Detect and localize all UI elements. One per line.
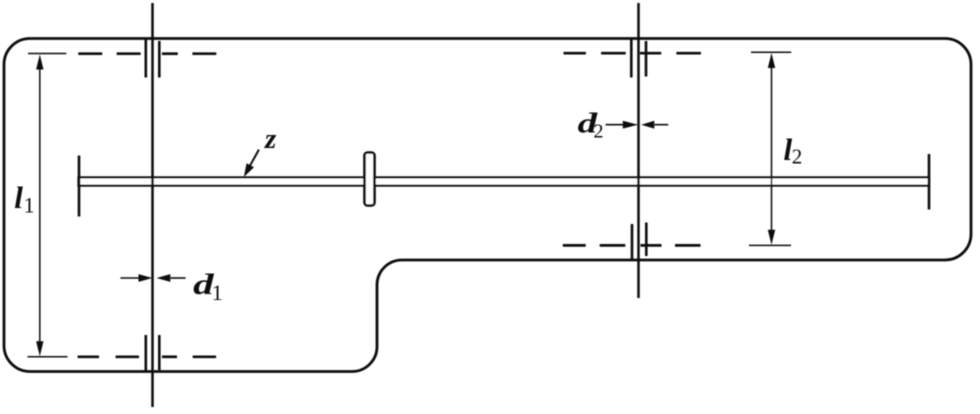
svg-text:2: 2 <box>594 121 604 143</box>
svg-text:1: 1 <box>24 193 35 218</box>
svg-text:l: l <box>14 180 23 215</box>
svg-text:2: 2 <box>792 144 803 168</box>
svg-text:z: z <box>264 123 277 155</box>
svg-text:1: 1 <box>212 280 223 305</box>
